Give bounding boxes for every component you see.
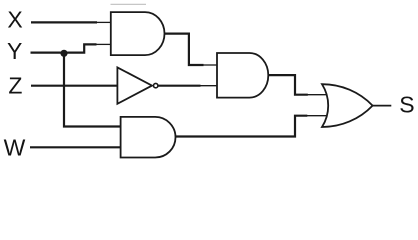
svg-text:Y: Y	[7, 38, 22, 64]
svg-text:S: S	[399, 92, 414, 118]
svg-text:X: X	[7, 7, 22, 33]
svg-text:Z: Z	[8, 73, 22, 99]
svg-text:W: W	[4, 134, 26, 160]
